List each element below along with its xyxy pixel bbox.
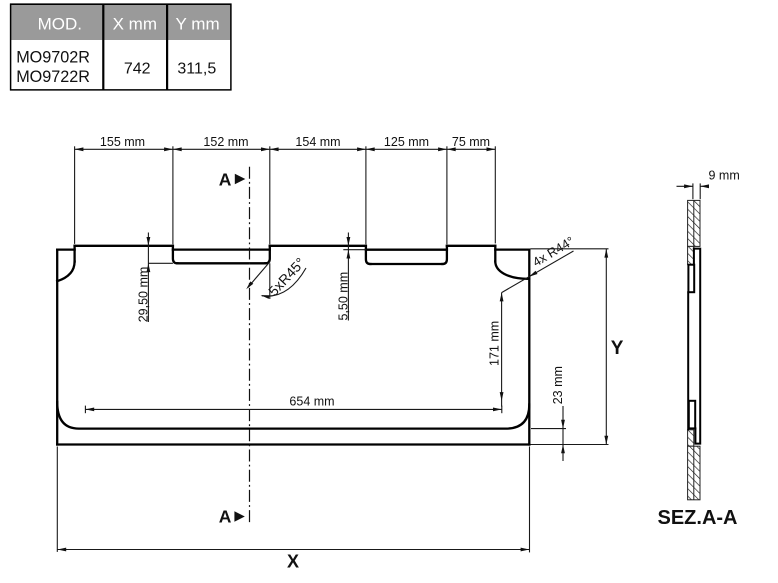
- svg-text:MO9702R: MO9702R: [16, 49, 90, 67]
- svg-text:654 mm: 654 mm: [289, 395, 334, 409]
- svg-text:9 mm: 9 mm: [709, 169, 740, 183]
- svg-text:154 mm: 154 mm: [295, 135, 340, 149]
- svg-text:742: 742: [124, 60, 151, 77]
- svg-text:155 mm: 155 mm: [100, 135, 145, 149]
- svg-text:Y: Y: [611, 338, 624, 359]
- svg-text:MO9722R: MO9722R: [16, 68, 90, 86]
- svg-text:MOD.: MOD.: [38, 15, 82, 34]
- svg-text:X: X: [287, 552, 299, 572]
- svg-text:171 mm: 171 mm: [488, 321, 502, 366]
- svg-text:X mm: X mm: [113, 15, 157, 34]
- svg-text:29,50 mm: 29,50 mm: [136, 267, 150, 323]
- svg-text:A: A: [219, 507, 232, 527]
- svg-text:75 mm: 75 mm: [452, 135, 490, 149]
- svg-text:125 mm: 125 mm: [384, 135, 429, 149]
- svg-text:Y mm: Y mm: [176, 15, 220, 34]
- svg-text:152 mm: 152 mm: [203, 135, 248, 149]
- svg-text:311,5: 311,5: [177, 60, 216, 77]
- svg-text:A: A: [219, 169, 232, 189]
- svg-text:5,50 mm: 5,50 mm: [336, 272, 350, 321]
- svg-text:SEZ.A-A: SEZ.A-A: [658, 507, 738, 529]
- svg-text:23 mm: 23 mm: [551, 366, 565, 404]
